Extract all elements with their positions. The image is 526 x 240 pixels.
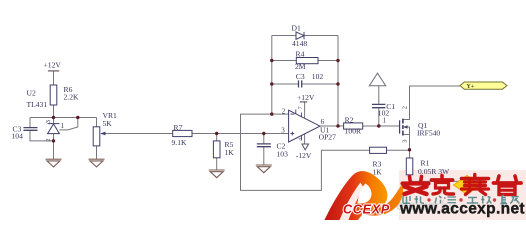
svg-text:CCEXP: CCEXP: [343, 203, 390, 217]
svg-text:4: 4: [298, 138, 304, 141]
svg-text:2: 2: [402, 106, 409, 109]
svg-text:3: 3: [45, 120, 52, 123]
svg-text:0.05R 3W: 0.05R 3W: [418, 167, 450, 176]
svg-text:1K: 1K: [373, 167, 383, 176]
svg-text:104: 104: [12, 131, 24, 140]
svg-text:R2: R2: [345, 115, 354, 124]
svg-text:7: 7: [298, 106, 304, 109]
svg-text:2.2K: 2.2K: [64, 92, 79, 101]
svg-text:D1: D1: [292, 23, 301, 32]
svg-text:102: 102: [312, 72, 324, 81]
svg-text:IRF540: IRF540: [417, 128, 440, 137]
svg-text:1: 1: [383, 116, 387, 124]
svg-text:100R: 100R: [345, 126, 362, 135]
svg-text:Y+: Y+: [467, 84, 475, 90]
svg-text:+12V: +12V: [297, 93, 315, 102]
svg-text:3: 3: [402, 140, 409, 143]
svg-text:9.1K: 9.1K: [172, 138, 187, 147]
svg-text:103: 103: [277, 149, 289, 158]
svg-text:2: 2: [45, 139, 52, 142]
svg-text:-12V: -12V: [296, 151, 312, 160]
svg-text:6: 6: [321, 118, 325, 126]
svg-text:R1: R1: [421, 158, 430, 167]
svg-text:3: 3: [281, 126, 285, 134]
svg-text:R4: R4: [296, 49, 305, 58]
svg-text:TL431: TL431: [27, 100, 48, 109]
svg-text:www.accexp.net: www.accexp.net: [399, 201, 525, 218]
svg-text:2: 2: [282, 108, 286, 116]
svg-text:R7: R7: [174, 123, 183, 132]
svg-text:4148: 4148: [292, 39, 307, 48]
svg-text:1K: 1K: [225, 148, 235, 157]
svg-text:U2: U2: [27, 89, 36, 98]
svg-text:C3: C3: [296, 72, 305, 81]
svg-text:+12V: +12V: [44, 61, 62, 70]
svg-text:OP27: OP27: [319, 133, 337, 142]
svg-text:1: 1: [61, 122, 65, 130]
svg-text:5K: 5K: [103, 119, 113, 128]
svg-text:2M: 2M: [295, 62, 306, 71]
